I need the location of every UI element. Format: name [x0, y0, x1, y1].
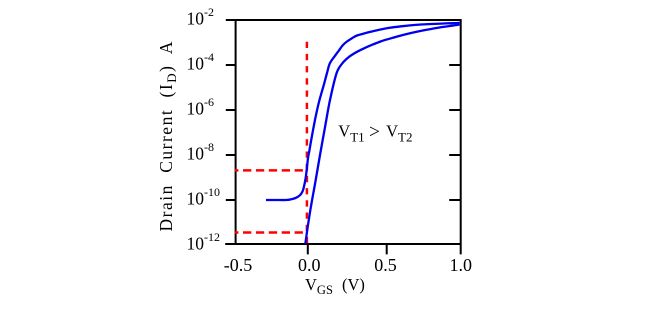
axis frame — [225, 19, 461, 254]
blue curve 1 (upper, with 1e-10 leakage floor) — [266, 23, 460, 200]
svg-text:0.5: 0.5 — [374, 255, 397, 275]
red dashed vertical line at VGS~0 — [306, 42, 309, 244]
x tick labels — [224, 255, 472, 275]
bottom ticks — [308, 244, 387, 254]
svg-text:-0.5: -0.5 — [224, 255, 253, 275]
right inward ticks — [449, 65, 461, 200]
blue curve 2 (lower, crosses bottom axis near 0.0) — [305, 25, 459, 244]
red dashed horizontal line upper (2e-9) — [235, 169, 308, 172]
svg-text:0.0: 0.0 — [298, 255, 321, 275]
svg-text:1.0: 1.0 — [449, 255, 472, 275]
left outward ticks — [226, 65, 236, 200]
y tick labels — [187, 5, 221, 254]
svg-text:Drain Current (ID) A: Drain Current (ID) A — [156, 40, 179, 231]
red dashed horizontal line lower (5e-12) — [235, 231, 308, 234]
